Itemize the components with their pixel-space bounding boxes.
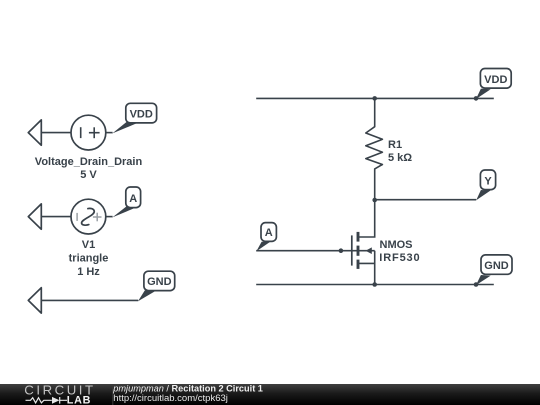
drain lead [358,200,375,237]
net flag A (left) [112,187,140,217]
wire (bottom rail, GND net) [256,284,494,286]
wire (Y net) [375,199,477,201]
wire [41,299,138,301]
CircuitLab logo resistor-diode glyph [26,397,68,404]
junction (top rail / VDD flag) [474,96,479,101]
body channel bar [357,246,360,256]
svg-text:http://circuitlab.com/ctpk63j: http://circuitlab.com/ctpk63j [113,393,228,404]
svg-text:pmjumpman / Recitation 2 Circu: pmjumpman / Recitation 2 Circuit 1 [112,383,263,393]
wire [106,132,113,134]
ground arrow (negative terminal of V1) [28,204,41,229]
wire [41,216,71,218]
wire [41,132,71,134]
wire [106,216,113,218]
svg-text:LAB: LAB [67,394,91,405]
drain channel bar [357,232,360,242]
source lead [358,251,375,285]
ground arrow (GND flag, left) [28,288,41,313]
net flag VDD (left) [112,103,156,133]
body lead with arrow [358,250,375,252]
voltage source Voltage_Drain_Drain [71,115,106,150]
svg-text:Voltage_Drain_Drain: Voltage_Drain_Drain [35,156,143,168]
svg-text:GND: GND [484,260,509,272]
voltage source V1 [71,199,106,234]
junction (R1 / Y wire / drain) [372,198,377,203]
junction (top rail / R1) [372,96,377,101]
ground arrow (negative terminal of Voltage_Drain_Drain) [28,120,41,145]
wire (gate net A) [256,250,358,252]
svg-text:5 V: 5 V [80,169,97,181]
svg-text:NMOS: NMOS [380,239,413,251]
net flag A (gate) [256,223,276,252]
svg-text:VDD: VDD [130,108,153,120]
net flag GND (left) [138,271,175,301]
net flag Y [476,170,495,200]
svg-text:GND: GND [147,276,172,288]
junction (bottom rail / GND flag) [474,282,479,287]
svg-text:VDD: VDD [484,74,507,86]
svg-text:triangle: triangle [69,252,109,264]
svg-text:1 Hz: 1 Hz [77,266,100,278]
net flag GND (bottom right) [476,255,512,285]
gate bar [351,235,353,265]
junction (bottom rail / source) [372,282,377,287]
wire (top rail, VDD net) [256,97,494,99]
footer divider [112,385,114,405]
svg-text:R1: R1 [388,139,402,151]
svg-text:A: A [265,227,273,239]
svg-text:Y: Y [484,176,492,188]
svg-text:V1: V1 [82,239,95,251]
svg-text:A: A [129,193,137,205]
svg-text:IRF530: IRF530 [379,252,420,264]
transistor M1 NMOS IRF530 [352,200,375,285]
source channel bar [357,260,360,269]
resistor R1 [366,98,383,200]
net flag VDD (top right) [476,69,511,100]
junction (gate pin) [339,248,344,253]
svg-text:5 kΩ: 5 kΩ [388,152,412,164]
